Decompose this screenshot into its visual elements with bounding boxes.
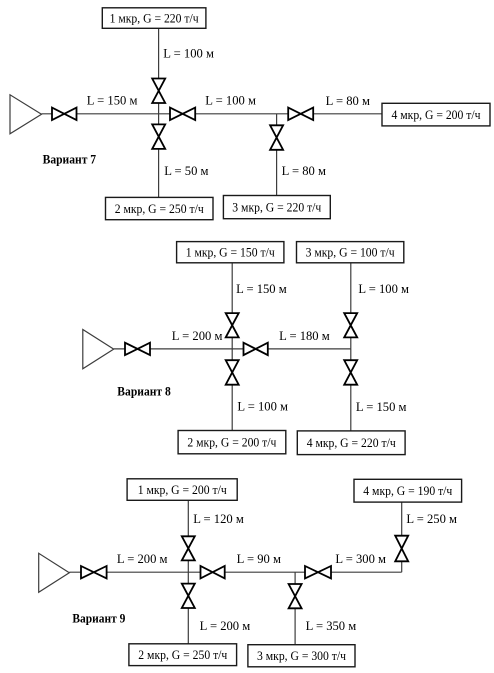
svg-text:L = 350 м: L = 350 м [306, 619, 357, 633]
box 2 V9 [129, 644, 237, 666]
wire riser J2 up to box 3 V8 [350, 263, 352, 349]
wire drop J1 down to box 2 V9 [187, 572, 189, 644]
wire drop J2 down to box 3 V7 [276, 114, 278, 196]
valve V8-F vertical below J2 [344, 360, 357, 385]
box 2 V8 [178, 431, 286, 454]
svg-text:1 мкр, G = 150 т/ч: 1 мкр, G = 150 т/ч [186, 246, 276, 260]
box 1 V7 [102, 8, 206, 29]
svg-text:L = 100 м: L = 100 м [237, 400, 288, 414]
valve V9-E vertical below J1 [182, 584, 195, 608]
valve V9-F vertical below J2 [289, 584, 302, 608]
wire riser J1 up to box 1 V9 [187, 500, 189, 572]
svg-text:Вариант 8: Вариант 8 [117, 385, 171, 399]
svg-text:4 мкр, G = 220 т/ч: 4 мкр, G = 220 т/ч [307, 436, 397, 450]
box 2 V7 [106, 197, 214, 219]
wire riser J1 up to box 1 V7 [158, 28, 160, 114]
wire drop J2 down to box 3 V9 [294, 572, 296, 645]
svg-text:2 мкр, G = 200 т/ч: 2 мкр, G = 200 т/ч [187, 436, 277, 450]
box 3 V9 [248, 645, 355, 667]
valve V8-D vertical below J1 [226, 360, 239, 385]
wire riser J1 up to box 1 V8 [231, 263, 233, 349]
svg-text:L = 80 м: L = 80 м [282, 164, 326, 178]
svg-text:3 мкр, G = 300 т/ч: 3 мкр, G = 300 т/ч [257, 649, 347, 663]
svg-text:2 мкр, G = 250 т/ч: 2 мкр, G = 250 т/ч [138, 648, 228, 662]
svg-text:L = 120 м: L = 120 м [193, 512, 244, 526]
source triangle V9 [39, 553, 70, 592]
svg-text:L = 50 м: L = 50 м [164, 164, 208, 178]
svg-text:L = 100 м: L = 100 м [358, 282, 409, 296]
svg-text:Вариант 9: Вариант 9 [72, 612, 125, 626]
valve V7-F vertical below J2 [270, 125, 283, 150]
svg-text:L = 300 м: L = 300 м [335, 552, 386, 566]
svg-text:4 мкр, G = 190 т/ч: 4 мкр, G = 190 т/ч [363, 484, 453, 498]
valve V7-C horizontal [288, 108, 313, 120]
svg-text:L = 200 м: L = 200 м [172, 329, 223, 343]
valve V9-C horizontal [305, 566, 331, 578]
svg-text:L = 150 м: L = 150 м [87, 94, 138, 108]
valve V7-D vertical above J1 [152, 79, 165, 104]
valve V9-D vertical above J1 [182, 536, 195, 560]
valve V9-A horizontal [81, 566, 107, 578]
wire main line V8 [114, 348, 351, 350]
source triangle V7 [10, 95, 42, 134]
svg-text:Вариант 7: Вариант 7 [43, 153, 97, 167]
svg-text:L = 200 м: L = 200 м [117, 552, 168, 566]
valve V7-B horizontal [170, 108, 195, 120]
svg-text:3 мкр, G = 100 т/ч: 3 мкр, G = 100 т/ч [306, 246, 396, 260]
valve V8-E vertical above J2 [344, 313, 357, 337]
box 1 V8 [177, 242, 284, 263]
box 3 V7 [223, 196, 330, 219]
valve V8-C vertical above J1 [226, 313, 239, 337]
valve V7-E vertical below J1 [152, 124, 165, 148]
wire drop J1 down to box 2 V8 [231, 349, 233, 431]
svg-text:L = 180 м: L = 180 м [279, 329, 330, 343]
svg-text:4 мкр, G = 200 т/ч: 4 мкр, G = 200 т/ч [392, 108, 482, 122]
wire main line V7 [42, 113, 383, 115]
box 3 V8 [297, 242, 404, 263]
svg-text:L = 90 м: L = 90 м [237, 552, 281, 566]
valve V8-A horizontal [125, 343, 150, 355]
svg-text:1 мкр, G = 220 т/ч: 1 мкр, G = 220 т/ч [110, 12, 200, 26]
wire main line V9 [69, 571, 401, 573]
wire drop J1 down to box 2 V7 [158, 114, 160, 198]
box 4 V9 [354, 479, 462, 502]
svg-text:3 мкр, G = 220 т/ч: 3 мкр, G = 220 т/ч [232, 201, 322, 215]
svg-text:L = 80 м: L = 80 м [326, 94, 370, 108]
wire drop J2 down to box 4 V8 [350, 349, 352, 431]
svg-text:1 мкр, G = 200 т/ч: 1 мкр, G = 200 т/ч [138, 483, 228, 497]
box 1 V9 [127, 479, 237, 501]
box 4 V8 [297, 431, 405, 455]
wire riser right up to box 4 V9 [401, 502, 403, 572]
valve V9-B horizontal [201, 566, 225, 578]
svg-text:L = 200 м: L = 200 м [200, 619, 251, 633]
source triangle V8 [83, 330, 114, 369]
svg-text:L = 100 м: L = 100 м [163, 46, 214, 60]
svg-text:L = 100 м: L = 100 м [205, 94, 256, 108]
svg-text:2 мкр, G = 250 т/ч: 2 мкр, G = 250 т/ч [115, 202, 205, 216]
svg-text:L = 150 м: L = 150 м [356, 400, 407, 414]
svg-text:L = 250 м: L = 250 м [406, 512, 457, 526]
valve V7-A horizontal [52, 108, 77, 120]
box 4 V7 [382, 103, 490, 126]
valve V9-G vertical on right riser [395, 536, 408, 562]
valve V8-B horizontal [244, 343, 268, 355]
svg-text:L = 150 м: L = 150 м [236, 282, 287, 296]
